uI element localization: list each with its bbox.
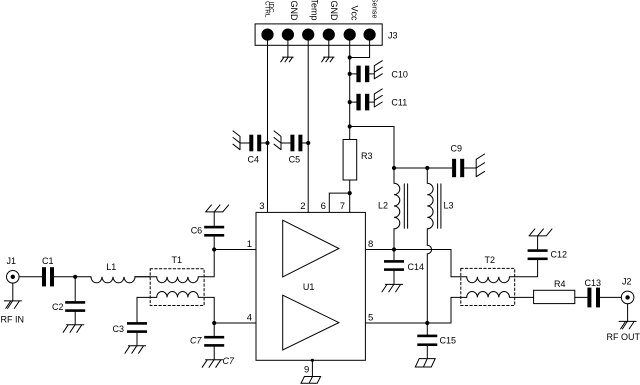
resistor R3	[343, 140, 357, 181]
svg-text:R3: R3	[361, 151, 373, 161]
transformer T2 secondary winding	[467, 292, 534, 298]
svg-text:5: 5	[368, 312, 373, 323]
transformer T1 dashed box	[150, 269, 204, 306]
wire Vcc branch to L2 top	[350, 127, 394, 169]
svg-text:GND: GND	[329, 1, 339, 22]
svg-text:C12: C12	[551, 250, 568, 260]
svg-text:Sense: Sense	[371, 0, 380, 19]
svg-text:L1: L1	[106, 262, 116, 272]
svg-text:C11: C11	[391, 98, 407, 108]
svg-text:T1: T1	[172, 255, 183, 265]
connector J3 pin 2 circle	[282, 29, 293, 40]
chassis ground left of C4	[233, 131, 240, 150]
svg-text:RF OUT: RF OUT	[607, 332, 640, 342]
svg-text:9: 9	[304, 365, 309, 376]
svg-text:7: 7	[340, 201, 345, 212]
chassis ground parallelogram below C15	[415, 359, 435, 367]
wire hop: L3 line hops pin8 rail	[427, 245, 431, 323]
svg-text:8: 8	[368, 239, 373, 250]
wire U1 pin8 rail	[365, 250, 466, 277]
svg-text:C5: C5	[289, 154, 301, 164]
connector J3 body	[255, 24, 382, 45]
capacitor C11	[350, 94, 375, 111]
ground below C14	[382, 284, 403, 292]
capacitor C5	[281, 135, 308, 152]
chassis ground above C12	[529, 229, 552, 236]
svg-text:U1: U1	[303, 282, 315, 292]
svg-text:J2: J2	[622, 277, 632, 287]
ground below C7	[202, 360, 223, 368]
ground at J3 pin4	[322, 57, 335, 62]
wire J2 to ground	[627, 304, 629, 322]
svg-text:C10: C10	[391, 70, 408, 80]
capacitor C15	[417, 323, 437, 359]
chassis ground parallelogram at pin9	[301, 377, 321, 384]
svg-text:C1: C1	[42, 256, 54, 266]
svg-text:6: 6	[321, 201, 326, 212]
op-amp U1 top amplifier triangle	[283, 220, 339, 277]
svg-text:C4: C4	[248, 154, 260, 164]
capacitor C9	[452, 159, 476, 177]
capacitor C1	[42, 267, 54, 286]
connector J2	[621, 291, 634, 304]
svg-text:3: 3	[259, 201, 264, 212]
svg-text:R4: R4	[554, 279, 566, 289]
svg-text:C9: C9	[451, 144, 463, 154]
svg-text:C6: C6	[191, 225, 203, 235]
svg-text:RF IN: RF IN	[1, 314, 25, 324]
svg-text:CTRL: CTRL	[263, 1, 270, 18]
node L3 bottom / C15 junction	[425, 321, 429, 325]
svg-text:J1: J1	[7, 256, 17, 266]
chassis ground right of C10	[374, 61, 382, 79]
node pin9 at box edge	[311, 359, 314, 362]
inductor L2 core lines	[404, 184, 407, 228]
connector J3 pin 5 circle	[344, 29, 355, 40]
capacitor C14	[384, 250, 404, 285]
svg-text:C2: C2	[52, 302, 64, 312]
svg-text:GND: GND	[289, 1, 299, 22]
ground below J1	[4, 301, 21, 309]
wire U1 pin9 stub	[311, 360, 313, 376]
wire U1 pin4 to left junction	[214, 322, 256, 324]
wire Sense elbow to Vcc	[350, 40, 370, 58]
wire U1 pin5 rail	[365, 297, 466, 323]
ground at J3 pin2	[281, 57, 294, 62]
wire J1 to ground	[12, 283, 14, 301]
connector J3 pin 1 circle	[262, 29, 273, 40]
wire C13 to J2	[600, 296, 621, 298]
chassis ground above C6	[206, 205, 229, 212]
node Vcc/Sense junction	[348, 55, 352, 59]
node L3 top junction	[425, 166, 429, 170]
capacitor C12	[528, 236, 548, 260]
wire Temp net (J3 pin3 to U1 pin2)	[307, 40, 309, 212]
inductor L2	[394, 168, 400, 250]
connector J3 pin 4 circle	[323, 29, 334, 40]
capacitor C3	[127, 322, 147, 346]
svg-text:C15: C15	[440, 336, 457, 346]
wire junction to U1 pin7	[349, 193, 351, 212]
ground below C3	[125, 346, 146, 354]
chassis ground right of C11	[374, 89, 382, 107]
transformer T2 dashed box	[461, 268, 515, 305]
node L2 top junction	[392, 166, 396, 170]
connector J3 pin 3 circle	[303, 29, 314, 40]
node C4 junction on IDC line	[265, 141, 269, 145]
transformer T1 primary winding	[135, 250, 214, 283]
svg-text:L2: L2	[378, 201, 388, 211]
capacitor C10	[350, 66, 375, 83]
wire R3 bottom to junction	[349, 180, 351, 193]
capacitor C7	[204, 323, 224, 360]
capacitor C4	[240, 135, 268, 152]
svg-text:C3: C3	[113, 324, 125, 334]
svg-text:L3: L3	[444, 201, 454, 211]
wire junction to U1 pin6	[329, 193, 349, 212]
wire IDC CTRL net (J3 pin1 to U1 pin3)	[267, 40, 269, 212]
node C7/T1 junction on pin4 wire	[212, 321, 216, 325]
svg-text:C7: C7	[223, 356, 235, 366]
svg-text:Vcc: Vcc	[350, 5, 360, 21]
svg-text:1: 1	[247, 239, 252, 250]
node L2 bottom / C14 junction	[392, 247, 396, 251]
ground below J2	[619, 321, 636, 329]
wire R4 to C13	[575, 296, 588, 298]
svg-text:J3: J3	[388, 30, 398, 40]
capacitor C6	[204, 212, 224, 250]
op-amp U1 box	[256, 212, 365, 360]
node C10 junction	[348, 72, 352, 76]
svg-text:C13: C13	[585, 278, 602, 288]
connector J1	[7, 271, 20, 284]
inductor L3	[427, 168, 433, 245]
wire GND stub J3 pin2	[287, 40, 289, 57]
svg-text:Temp: Temp	[310, 0, 320, 21]
op-amp U1 bottom amplifier triangle	[283, 295, 339, 350]
node C5 junction on Temp line	[306, 141, 310, 145]
svg-text:4: 4	[247, 312, 252, 323]
node C2 junction	[73, 275, 77, 279]
capacitor C13	[587, 288, 600, 308]
svg-text:C14: C14	[408, 262, 425, 272]
wire Vcc net vertical	[349, 40, 351, 140]
ground below C2	[63, 325, 84, 333]
chassis ground left of C5	[274, 131, 281, 150]
node Vcc to L2 branch junction	[348, 124, 352, 128]
wire GND stub J3 pin4	[328, 40, 330, 57]
svg-text:T2: T2	[485, 255, 496, 265]
wire T1 secondary left to C3	[136, 297, 138, 322]
transformer T2 primary winding	[467, 258, 538, 283]
svg-text:C7: C7	[190, 336, 202, 346]
capacitor C2	[65, 277, 85, 325]
node C11 junction	[348, 100, 352, 104]
node C6/T1 junction on pin1 wire	[212, 247, 216, 251]
chassis ground right of C9	[476, 154, 484, 177]
connector J3 pin 6 circle	[364, 29, 375, 40]
svg-text:2: 2	[300, 201, 305, 212]
node R3/pin6/pin7 junction	[348, 191, 352, 195]
inductor L3 core lines	[438, 184, 441, 228]
wire U1 pin1 to left junction	[214, 249, 256, 251]
wire C1 to L1	[54, 276, 91, 278]
wire mid rail L2/L3/C9	[394, 167, 452, 169]
transformer T1 secondary winding	[137, 292, 214, 324]
inductor L1	[91, 277, 150, 283]
resistor R4	[534, 290, 575, 303]
wire J1 to C1	[19, 276, 42, 278]
